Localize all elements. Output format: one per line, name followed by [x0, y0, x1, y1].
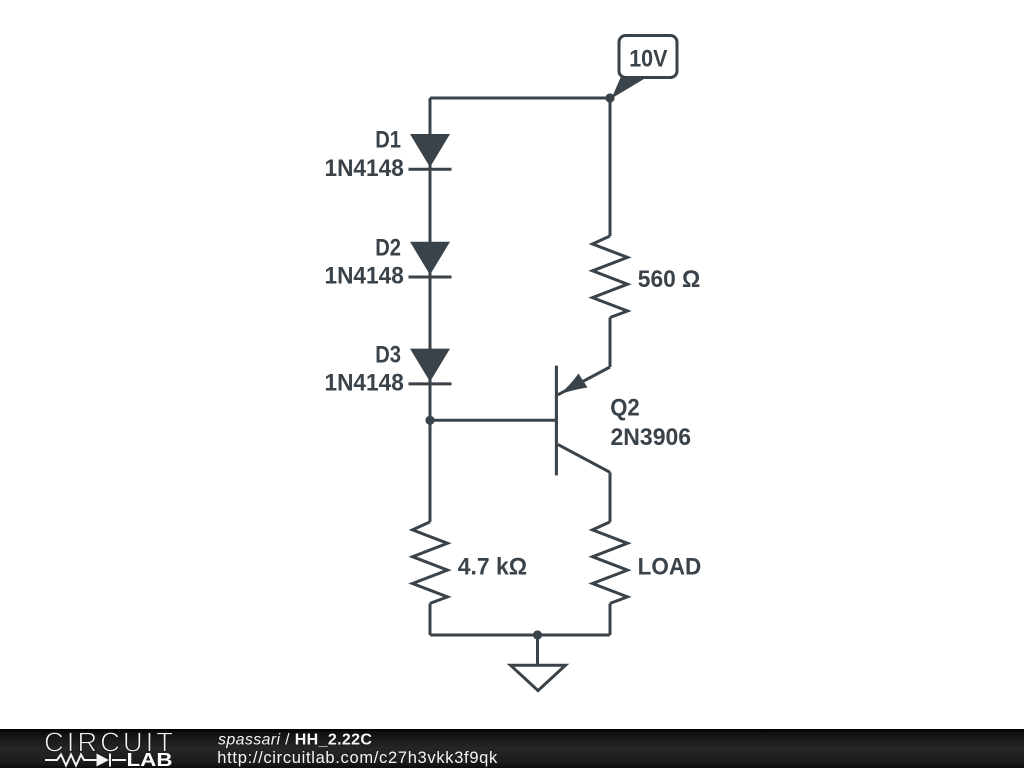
svg-text:560 Ω: 560 Ω [638, 266, 701, 293]
diode D2 cathode bar [409, 276, 452, 279]
diode D3 triangle [410, 349, 450, 382]
diode D2 triangle [410, 242, 450, 275]
wire top horizontal [430, 97, 610, 100]
transistor Q2 emitter arrow [559, 374, 588, 395]
resistor R1 560 ohm zigzag [593, 236, 628, 318]
wire left lead below 4.7k resistor [429, 603, 432, 635]
svg-text:LAB: LAB [127, 750, 173, 768]
wire LOAD lead bottom [609, 603, 612, 635]
svg-text:1N4148: 1N4148 [325, 155, 404, 182]
resistor R2 4.7k zigzag [413, 522, 448, 604]
wire collector to LOAD [609, 472, 612, 522]
node at 10V junction [605, 93, 614, 102]
svg-text:2N3906: 2N3906 [611, 424, 692, 451]
diode D1 triangle [410, 134, 450, 167]
svg-text:D2: D2 [375, 234, 401, 261]
resistor LOAD zigzag [593, 522, 628, 604]
svg-text:http://circuitlab.com/c27h3vkk: http://circuitlab.com/c27h3vkk3f9qk [217, 749, 498, 767]
voltage label 10V tail [612, 77, 649, 99]
diode D3 cathode bar [409, 382, 452, 385]
transistor Q2 emitter diagonal [558, 367, 610, 395]
wire bottom horizontal [430, 634, 610, 637]
svg-text:Q2: Q2 [610, 395, 640, 422]
node at ground junction [533, 630, 542, 639]
wire base [430, 419, 556, 422]
wire left vertical through diodes [429, 98, 432, 522]
svg-text:spassari / HH_2.22C: spassari / HH_2.22C [218, 732, 372, 749]
diode D1 cathode bar [409, 168, 452, 171]
svg-text:4.7 kΩ: 4.7 kΩ [458, 554, 527, 581]
transistor Q2 collector diagonal [558, 444, 610, 472]
ground triangle [511, 665, 566, 690]
ground stub [536, 635, 539, 665]
svg-text:D3: D3 [375, 341, 401, 368]
svg-text:LOAD: LOAD [638, 553, 702, 580]
wire right vertical from 10V node down to 560 ohm [609, 98, 612, 236]
logo resistor-diode squiggle [45, 754, 126, 767]
svg-text:10V: 10V [629, 46, 668, 73]
svg-text:D1: D1 [375, 127, 401, 154]
transistor Q2 base bar [555, 366, 558, 476]
svg-text:1N4148: 1N4148 [325, 263, 404, 290]
node at base junction [425, 416, 434, 425]
svg-text:1N4148: 1N4148 [325, 370, 404, 397]
voltage label 10V box [619, 36, 677, 78]
logo diode triangle [97, 754, 110, 767]
wire 560 ohm to Q2 emitter [609, 318, 612, 368]
